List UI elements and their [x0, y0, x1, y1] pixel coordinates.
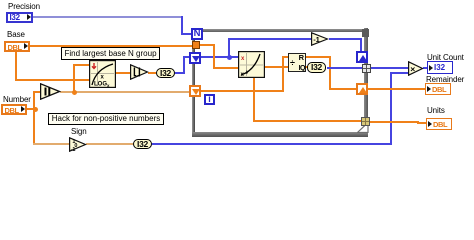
indicator terminal Units DBL: [426, 118, 452, 130]
svg-text:-1: -1: [71, 147, 76, 152]
wire power output to quotient-remainder lower input: [265, 66, 288, 68]
for loop frame corner top-right bevel: [362, 29, 369, 37]
I32 conversion bubble 3: [307, 62, 326, 73]
floor round-to-neg-inf triangle: [130, 64, 149, 80]
wire number up to abs input: [33, 91, 35, 108]
indicator terminal Remainder DBL: [425, 83, 451, 95]
decrement triangle: [311, 32, 329, 46]
label Units: [427, 106, 445, 115]
wire units tunnel out to indicator: [369, 121, 419, 123]
abs function triangle: [40, 83, 61, 100]
for loop frame right edge: [364, 28, 368, 137]
control terminal Base DBL: [4, 41, 30, 52]
iteration terminal i: [204, 94, 215, 105]
for loop frame bottom edge: [192, 132, 368, 137]
free label Hack for non-positive numbers: [48, 113, 164, 125]
wire remainder shift reg out to indicator: [368, 88, 426, 90]
power of x icon: [238, 51, 265, 78]
wire blue shift reg left to power icon upper input: [201, 56, 238, 58]
shift register right blue: [356, 51, 368, 63]
label Sign: [71, 127, 87, 136]
wire Precision to N (blue): [33, 16, 183, 18]
shift register left orange: [189, 85, 201, 97]
output tunnel units: [361, 117, 370, 126]
for loop corner notch: [357, 122, 369, 133]
wire QR remainder output to orange shift reg right: [306, 56, 331, 58]
shift register right orange: [356, 83, 368, 95]
wire Base down branch to log icon lower input: [15, 51, 17, 81]
wire log output to floor: [115, 72, 130, 74]
junction dot on abs output: [72, 90, 77, 95]
for loop frame top edge: [192, 29, 369, 32]
I32 conversion bubble 1: [156, 68, 175, 78]
wire units branch under power icon to bottom tunnel: [253, 77, 255, 122]
wire number down to sign input: [33, 108, 35, 145]
input tunnel Base solid orange: [192, 41, 200, 49]
label Number: [3, 95, 31, 104]
control terminal Number DBL: [1, 104, 27, 115]
wire decrement output to blue shift register right: [329, 38, 362, 40]
free label Find largest base N group: [61, 47, 160, 60]
wire I32 conversion 3 out through tunnel to multiply (blue): [327, 67, 408, 69]
label Unit Count: [427, 53, 464, 62]
wire multiply output to Unit Count indicator: [423, 67, 428, 69]
I32 conversion bubble 2: [133, 139, 152, 149]
label Base: [7, 30, 25, 39]
wire abs output to orange shift register: [60, 91, 190, 93]
svg-text:-1: -1: [313, 35, 320, 44]
wire Number to junction: [27, 108, 35, 110]
wire branch up to log icon upper input: [73, 64, 75, 91]
wire sign output to I32 conversion 2: [86, 143, 133, 145]
loop count terminal N: [191, 28, 203, 40]
output tunnel I32: [362, 64, 371, 73]
for loop frame left edge: [192, 29, 195, 137]
junction dot on number wire: [33, 107, 38, 112]
control terminal Precision I32: [6, 12, 33, 23]
label Remainder: [426, 75, 464, 84]
wire Base to tunnel (orange): [30, 45, 193, 47]
wire floor output to I32 conversion 1: [148, 72, 156, 74]
wire orange shift reg left to QR upper input: [201, 90, 284, 92]
indicator terminal Unit Count I32: [427, 61, 453, 74]
svg-text:LOG: LOG: [94, 82, 107, 88]
sign function triangle: [69, 137, 87, 152]
multiply triangle: [408, 61, 424, 76]
wire exponent up to decrement input: [228, 38, 230, 56]
label Precision: [8, 2, 40, 11]
wire I32 conversion 2 to multiply lower input (blue): [152, 143, 392, 145]
wire QR IQ output to I32 conversion 3: [306, 66, 310, 68]
logarithm base x icon: [89, 60, 116, 88]
wire tunnel down to power icon lower input (orange): [200, 44, 215, 46]
quotient and remainder icon: [288, 53, 306, 72]
wire I32 conversion 1 to blue shift register left (blue): [175, 72, 185, 74]
junction dot exponent: [227, 55, 232, 60]
svg-text:×: ×: [410, 64, 415, 74]
shift register left blue: [189, 52, 201, 64]
